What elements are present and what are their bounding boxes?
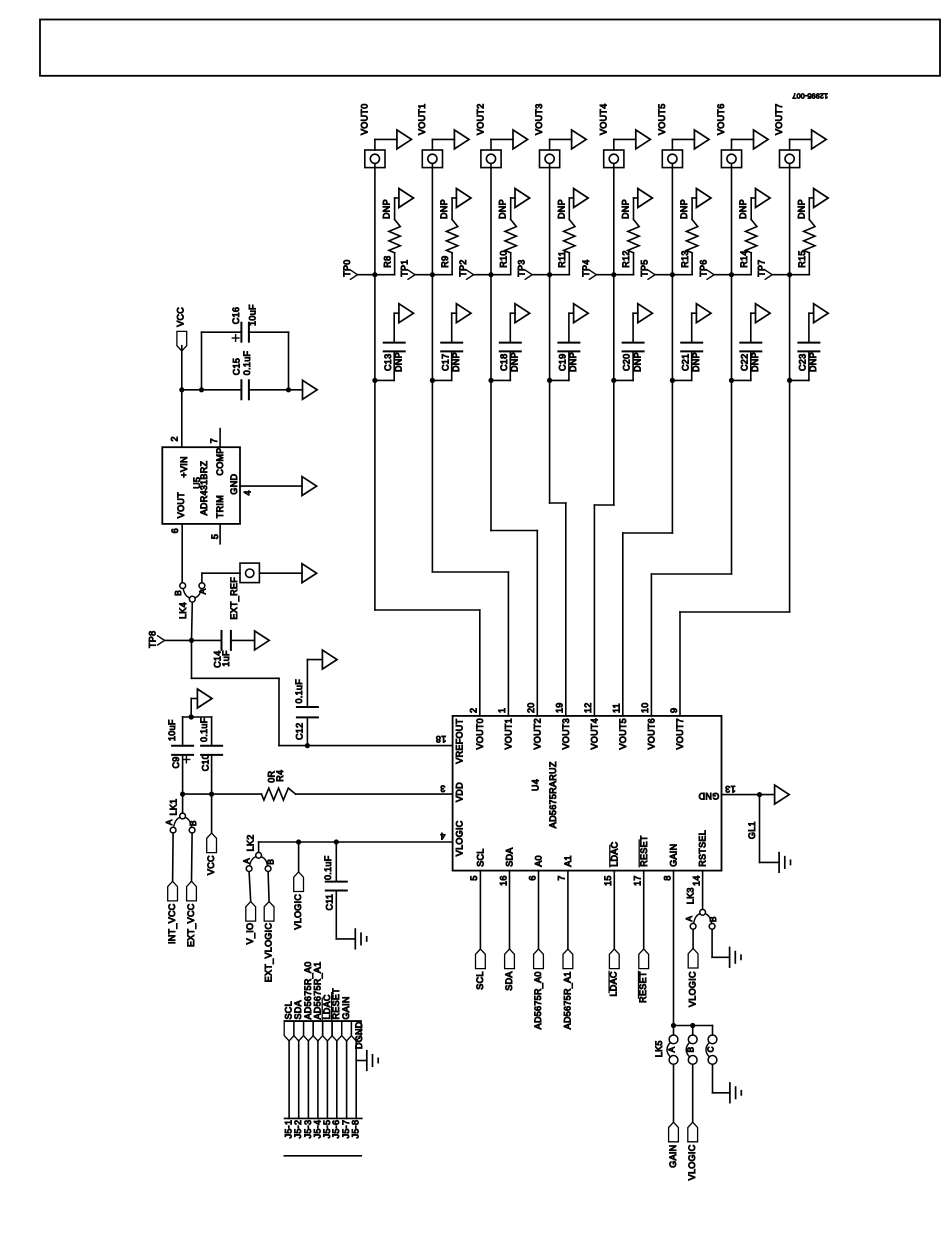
- svg-text:B: B: [174, 590, 183, 596]
- resistor R10: [505, 220, 516, 253]
- earth ground LK3 B: [730, 948, 741, 968]
- label DNP of R11: [556, 199, 566, 219]
- label DNP of C13: [393, 352, 403, 372]
- node VOUT1 TP junction: [430, 272, 435, 277]
- svg-text:V_IO: V_IO: [245, 923, 255, 945]
- svg-text:LK5: LK5: [654, 1040, 664, 1057]
- node VOUT4 cap junction: [611, 378, 616, 383]
- label R15: [797, 250, 807, 267]
- capacitor C15: [241, 380, 249, 399]
- link LK5 position A pins: [667, 1026, 678, 1065]
- label DNP of C21: [691, 352, 701, 372]
- pin 6 U4 A0: [527, 875, 537, 880]
- pin label J5-3: [303, 1120, 313, 1139]
- label C11: [325, 894, 335, 911]
- svg-text:14: 14: [691, 875, 701, 886]
- svg-text:A: A: [685, 916, 694, 922]
- svg-text:GAIN: GAIN: [669, 844, 679, 867]
- node VOUT5 TP junction: [670, 272, 675, 277]
- label LDAC: [609, 971, 619, 996]
- svg-text:VOUT5: VOUT5: [657, 103, 667, 135]
- wire LK5 top rail: [674, 1026, 713, 1036]
- connector J5 body line: [284, 1155, 361, 1157]
- pin label J5-2: [293, 1120, 303, 1139]
- node TP8 junction: [189, 638, 194, 643]
- svg-text:VLOGIC: VLOGIC: [293, 894, 303, 930]
- label C18: [499, 354, 509, 371]
- svg-text:DNP: DNP: [750, 352, 760, 372]
- net label VOUT2: [476, 103, 486, 135]
- label 0.1uF of C11: [323, 855, 333, 880]
- svg-text:AD5675R_A0: AD5675R_A0: [533, 971, 543, 1029]
- svg-text:TP1: TP1: [400, 259, 410, 276]
- svg-text:COMP: COMP: [215, 447, 225, 475]
- wire C13 to ground: [394, 313, 399, 342]
- node VOUT4 TP junction: [611, 272, 616, 277]
- ground at VOUT6 connector: [754, 130, 769, 149]
- node LK5 A junction: [671, 1023, 676, 1028]
- node VDD rail 2: [209, 792, 214, 797]
- svg-text:GAIN: GAIN: [341, 996, 351, 1019]
- svg-text:0.1uF: 0.1uF: [294, 679, 304, 704]
- ground at C13: [399, 304, 414, 323]
- svg-text:VOUT6: VOUT6: [647, 718, 657, 750]
- svg-text:VOUT5: VOUT5: [618, 718, 628, 750]
- svg-text:+VIN: +VIN: [179, 456, 189, 477]
- svg-text:4: 4: [440, 831, 445, 841]
- label LK5 C: [707, 1046, 716, 1052]
- resistor R15: [804, 220, 815, 253]
- label EXT_VCC: [186, 903, 196, 947]
- pin name VOUT inside U5: [176, 492, 186, 518]
- svg-text:GND: GND: [229, 474, 239, 495]
- power flag VCC top: [175, 307, 186, 351]
- wire J5-8: [355, 1041, 357, 1119]
- label LK1 A: [165, 819, 174, 825]
- svg-text:R15: R15: [797, 250, 807, 267]
- pin 3 U4 VDD: [440, 783, 445, 793]
- port flag SDA: [505, 949, 515, 969]
- figure number 12995-007: [792, 91, 828, 100]
- svg-text:VLOGIC: VLOGIC: [688, 971, 698, 1007]
- svg-text:5: 5: [210, 534, 220, 539]
- wire J5-3: [307, 1041, 309, 1119]
- node C9 C10 ground junction: [189, 714, 194, 719]
- svg-text:C12: C12: [295, 723, 305, 740]
- svg-text:LK1: LK1: [169, 799, 179, 816]
- label VLOGIC bottom: [687, 1144, 697, 1180]
- svg-text:GAIN: GAIN: [668, 1145, 678, 1168]
- svg-text:LDAC: LDAC: [609, 971, 619, 996]
- svg-text:R12: R12: [621, 250, 631, 267]
- label RESET: [638, 971, 648, 1003]
- link LK5 position C pins: [706, 1035, 717, 1064]
- label C14: [213, 650, 223, 667]
- ground at R8: [399, 189, 414, 208]
- port flag J5-8: [351, 1021, 361, 1041]
- label GAIN: [668, 1145, 678, 1168]
- ground at U4 GND: [760, 785, 790, 804]
- pin label J5-7: [341, 1120, 351, 1139]
- svg-text:C9: C9: [171, 756, 181, 768]
- svg-text:A1: A1: [563, 855, 573, 867]
- connector J VOUT5: [662, 150, 682, 168]
- svg-text:R13: R13: [680, 250, 690, 267]
- svg-text:TP6: TP6: [699, 259, 709, 276]
- node VOUT6 TP junction: [729, 272, 734, 277]
- label C12: [295, 723, 305, 740]
- svg-text:DNP: DNP: [556, 199, 566, 219]
- wire C16 loop: [202, 332, 289, 390]
- svg-text:EXT_VCC: EXT_VCC: [186, 903, 196, 947]
- connector J VOUT4: [604, 150, 624, 168]
- pin 7 U4 A1: [557, 875, 567, 880]
- svg-text:LK2: LK2: [246, 834, 256, 851]
- wire C18 stub: [491, 351, 510, 380]
- label C21: [680, 354, 690, 371]
- label C13: [383, 354, 393, 371]
- wire C18 to ground: [510, 313, 515, 342]
- wire VOUT1 main vertical: [431, 164, 433, 573]
- node VLOGIC flag junction: [296, 839, 301, 844]
- empty title box: [40, 20, 940, 76]
- label U4: [530, 779, 540, 791]
- svg-text:0.1uF: 0.1uF: [323, 855, 333, 880]
- label LK5 A: [668, 1046, 677, 1052]
- svg-text:5: 5: [469, 875, 479, 880]
- label AD5675R_A0: [533, 971, 543, 1029]
- svg-text:2: 2: [169, 436, 179, 441]
- wire C14 to ground: [231, 639, 255, 641]
- link LK2: [246, 852, 271, 871]
- ground at EXT_REF: [302, 564, 317, 583]
- connector J VOUT6: [721, 150, 741, 168]
- label LK5 B: [687, 1046, 696, 1052]
- label J5 SCL: [284, 1001, 294, 1019]
- pin 7 U5 COMP stub: [209, 429, 220, 448]
- wire VOUT7 connector to ground: [790, 139, 812, 150]
- svg-text:7: 7: [209, 438, 219, 443]
- pin 20 U4 VOUT2: [526, 702, 536, 713]
- pin name GND inside U5: [229, 474, 239, 495]
- wire C20 to ground: [633, 313, 638, 342]
- wire C22 stub: [732, 351, 751, 380]
- earth ground DGND: [367, 1051, 378, 1071]
- svg-text:VOUT3: VOUT3: [561, 718, 571, 750]
- resistor R9: [446, 220, 457, 253]
- label J5 SDA: [293, 1000, 303, 1019]
- svg-text:C19: C19: [558, 354, 568, 371]
- label R11: [557, 251, 567, 268]
- wire C12 leg: [306, 717, 308, 745]
- test point TP7: [757, 259, 790, 279]
- wire LK3 B to ground: [712, 929, 730, 957]
- pin name VOUT4 inside U4: [590, 718, 600, 750]
- label LK4 A: [199, 588, 208, 594]
- ground at VOUT7 connector: [812, 130, 827, 149]
- svg-text:A: A: [165, 819, 174, 825]
- svg-text:C18: C18: [499, 354, 509, 371]
- wire TP8 to VREFOUT: [192, 640, 453, 745]
- svg-text:VCC: VCC: [175, 307, 185, 327]
- svg-text:VOUT4: VOUT4: [590, 718, 600, 750]
- ground at C14: [255, 631, 270, 650]
- net label VOUT7: [774, 103, 784, 135]
- svg-text:0.1uF: 0.1uF: [242, 350, 252, 375]
- svg-text:VOUT6: VOUT6: [716, 103, 726, 135]
- label DNP of C22: [750, 352, 760, 372]
- wire C21 to ground: [692, 313, 697, 342]
- wire VOUT2 jog to pin: [491, 531, 537, 716]
- node VOUT7 TP junction: [787, 272, 792, 277]
- svg-text:J5-8: J5-8: [351, 1120, 361, 1139]
- svg-text:DNP: DNP: [621, 199, 631, 219]
- svg-text:15: 15: [603, 875, 613, 886]
- svg-text:C23: C23: [798, 354, 808, 371]
- svg-text:R10: R10: [498, 250, 508, 267]
- wire VOUT3 jog to pin: [550, 503, 566, 716]
- ground at VOUT4 connector: [636, 130, 651, 149]
- node VOUT0 cap junction: [372, 378, 377, 383]
- port flag SCL: [476, 949, 486, 969]
- resistor R11: [564, 220, 575, 253]
- wire VOUT5 jog to pin: [623, 533, 673, 716]
- label C16: [231, 307, 241, 324]
- wire VOUT3 connector to ground: [550, 139, 572, 150]
- svg-text:VCC: VCC: [206, 855, 216, 875]
- svg-text:AD5675RARUZ: AD5675RARUZ: [548, 761, 558, 828]
- label LK4 B: [174, 590, 183, 596]
- svg-text:J5-4: J5-4: [312, 1120, 322, 1139]
- svg-text:TP7: TP7: [757, 259, 767, 276]
- label VLOGIC at LK3: [688, 971, 698, 1007]
- wire LK3 A to VLOGIC flag: [692, 929, 694, 948]
- ground at C17: [456, 304, 471, 323]
- svg-text:VOUT0: VOUT0: [475, 718, 485, 750]
- ground at VOUT0 connector: [397, 130, 412, 149]
- wire VOUT5 main vertical: [671, 164, 673, 534]
- label DNP of C18: [510, 352, 520, 372]
- wire VOUT6 connector to ground: [732, 139, 754, 150]
- svg-text:SDA: SDA: [293, 1000, 303, 1019]
- wire U4 LDAC to flag: [613, 871, 615, 949]
- svg-text:20: 20: [526, 702, 536, 713]
- label AD5675R_A1: [562, 971, 572, 1029]
- pin name SCL inside U4: [476, 848, 486, 866]
- svg-text:GND: GND: [698, 791, 719, 801]
- svg-text:SDA: SDA: [505, 847, 515, 866]
- pin name A0 inside U4: [534, 855, 544, 867]
- svg-text:VOUT2: VOUT2: [532, 718, 542, 750]
- ground at VOUT1 connector: [454, 130, 469, 149]
- label C23: [798, 354, 808, 371]
- svg-text:B: B: [189, 820, 198, 826]
- net label VOUT6: [716, 103, 726, 135]
- net label VOUT0: [359, 103, 369, 135]
- label R14: [739, 250, 749, 267]
- svg-text:B: B: [267, 859, 276, 865]
- svg-text:4: 4: [242, 490, 252, 495]
- wire C9 C10 top rail: [183, 716, 212, 718]
- ground at R12: [638, 189, 653, 208]
- pin name SDA inside U4: [505, 847, 515, 866]
- label 0R of R4: [267, 770, 277, 782]
- wire C13 stub: [375, 351, 394, 380]
- wire C22 to ground: [751, 313, 756, 342]
- svg-text:VOUT2: VOUT2: [476, 103, 486, 135]
- test point TP6: [699, 259, 732, 279]
- wire R13 stub: [672, 253, 692, 275]
- node VCC rail 2: [199, 387, 204, 392]
- capacitor C21: [681, 343, 702, 352]
- port flag J5-1: [284, 1021, 294, 1041]
- label DNP of C20: [632, 352, 642, 372]
- test point TP0: [342, 259, 375, 279]
- svg-text:ADR431BRZ: ADR431BRZ: [199, 460, 209, 515]
- pin 2 U4 VOUT0: [469, 708, 479, 713]
- svg-text:18: 18: [436, 734, 447, 744]
- ground at C18: [515, 304, 530, 323]
- ground at C19: [574, 304, 589, 323]
- test point TP5: [640, 259, 673, 279]
- svg-text:C16: C16: [231, 307, 241, 324]
- pin 15 U4 LDAC: [603, 875, 613, 886]
- svg-text:SDA: SDA: [504, 971, 514, 990]
- ground at VOUT5 connector: [694, 130, 709, 149]
- node VOUT7 cap junction: [787, 378, 792, 383]
- ground at C23: [814, 304, 829, 323]
- svg-text:TP5: TP5: [640, 259, 650, 276]
- svg-text:TP8: TP8: [148, 631, 158, 648]
- ground at C21: [696, 304, 711, 323]
- label DNP of R13: [679, 199, 689, 219]
- connector J VOUT7: [780, 150, 800, 168]
- wire VOUT7 main vertical: [789, 164, 791, 613]
- resistor R14: [746, 220, 757, 253]
- label C22: [739, 354, 749, 371]
- node LK5 B junction: [690, 1023, 695, 1028]
- wire to C14: [192, 639, 222, 641]
- pin name TRIM inside U5: [215, 495, 225, 518]
- node VOUT5 cap junction: [670, 378, 675, 383]
- svg-text:VREFOUT: VREFOUT: [454, 718, 464, 763]
- label LK2: [246, 834, 256, 851]
- svg-text:16: 16: [498, 875, 508, 886]
- ground at R14: [756, 189, 771, 208]
- label C19: [558, 354, 568, 371]
- svg-text:VOUT3: VOUT3: [534, 103, 544, 135]
- wire R9 to ground: [452, 198, 456, 220]
- capacitor C18: [500, 343, 521, 352]
- pin label J5-5: [322, 1120, 332, 1139]
- svg-text:TP0: TP0: [342, 259, 352, 276]
- svg-text:6: 6: [527, 875, 537, 880]
- wire C23 stub: [790, 351, 809, 380]
- svg-text:RESET: RESET: [639, 835, 649, 867]
- pin 10 U4 VOUT6: [640, 702, 650, 713]
- svg-text:C11: C11: [325, 894, 335, 911]
- svg-text:SCL: SCL: [475, 971, 485, 989]
- link LK1: [170, 813, 195, 833]
- svg-text:RESET: RESET: [638, 971, 648, 1003]
- node VOUT0 TP junction: [372, 272, 377, 277]
- wire C23 to ground: [809, 313, 814, 342]
- label 0.1uF of C15: [242, 350, 252, 375]
- wire DGND to ground: [356, 1060, 367, 1062]
- node VOUT1 cap junction: [430, 378, 435, 383]
- pin 16 U4 SDA: [498, 875, 508, 886]
- svg-text:A0: A0: [534, 855, 544, 867]
- capacitor C19: [558, 343, 579, 352]
- svg-text:DNP: DNP: [439, 199, 449, 219]
- wire R10 to ground: [511, 198, 515, 220]
- label R13: [680, 250, 690, 267]
- label J5 AD5675R_A1: [312, 961, 322, 1019]
- port flag EXT_VLOGIC: [264, 902, 274, 922]
- wire R15 to ground: [809, 198, 813, 220]
- svg-text:INT_VCC: INT_VCC: [167, 903, 177, 944]
- label DNP of R15: [796, 199, 806, 219]
- wire J5-2: [298, 1041, 300, 1119]
- svg-text:DNP: DNP: [679, 199, 689, 219]
- wire VCC flag down: [181, 346, 183, 390]
- label J5 AD5675R_A0: [303, 961, 313, 1019]
- node VOUT2 TP junction: [488, 272, 493, 277]
- wire R8 to ground: [395, 198, 399, 220]
- label DNP of R8: [382, 199, 392, 219]
- svg-text:VOUT0: VOUT0: [359, 103, 369, 135]
- svg-text:DNP: DNP: [382, 199, 392, 219]
- net label VOUT4: [598, 103, 608, 135]
- label ADR431BRZ: [199, 460, 209, 515]
- wire VOUT4 main vertical: [613, 164, 615, 506]
- capacitor C20: [623, 343, 644, 352]
- wire U4 SCL to flag: [479, 871, 481, 949]
- svg-text:VOUT: VOUT: [176, 492, 186, 518]
- wire U4 A0 to flag: [538, 871, 540, 949]
- pin name VOUT0 inside U4: [475, 718, 485, 750]
- label J5 GAIN: [341, 996, 351, 1019]
- svg-text:J5-2: J5-2: [293, 1120, 303, 1139]
- label SDA: [504, 971, 514, 990]
- svg-text:DNP: DNP: [393, 352, 403, 372]
- connector J5 pin bus: [285, 1117, 362, 1119]
- wire LK4 to TP8 node: [191, 602, 194, 640]
- label LK3: [686, 887, 696, 904]
- port flag VLOGIC bottom: [688, 1122, 698, 1142]
- pin name COMP inside U5: [215, 447, 225, 475]
- svg-text:13: 13: [725, 784, 736, 794]
- wire VCC to U5 +VIN: [181, 390, 183, 447]
- wire R10 stub: [491, 253, 511, 275]
- wire VOUT0 main vertical: [374, 164, 376, 611]
- pin 14 U4 RSTSEL: [691, 875, 701, 886]
- svg-text:SCL: SCL: [476, 848, 486, 866]
- connector J VOUT0: [365, 150, 385, 168]
- wire C17 to ground: [452, 313, 457, 342]
- capacitor C10: [201, 717, 222, 794]
- test point TP3: [517, 259, 550, 279]
- vreg U5 ADR431BRZ body: [162, 447, 240, 524]
- label C15: [231, 358, 241, 375]
- svg-text:AD5675R_A1: AD5675R_A1: [312, 961, 322, 1019]
- wire R12 to ground: [634, 198, 638, 220]
- port flag RESET: [639, 949, 649, 969]
- port flag V_IO: [246, 902, 256, 922]
- svg-text:A: A: [668, 1046, 677, 1052]
- wire VOUT1 connector to ground: [432, 139, 454, 150]
- svg-text:A: A: [243, 858, 252, 864]
